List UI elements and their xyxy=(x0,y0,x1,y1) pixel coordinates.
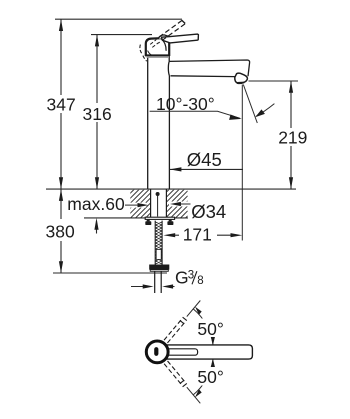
aerator outlet face xyxy=(237,82,244,84)
arrow 316 top xyxy=(95,35,99,47)
lever swing dashed arc left of head xyxy=(140,45,142,54)
arrow 347 top xyxy=(59,19,63,31)
svg-text:50°: 50° xyxy=(197,319,223,339)
water stream line vertical (10deg) / 171 extension xyxy=(241,85,243,241)
mounting bolt left xyxy=(147,220,150,222)
arrowhead upper arc at bar xyxy=(211,337,215,345)
shank centerline and dot xyxy=(156,192,160,196)
label 50 lower (with white mask) xyxy=(197,367,229,386)
label 50 upper (with white mask) xyxy=(197,319,229,338)
dia34 arrow with halo xyxy=(169,202,190,207)
lever raised end cap xyxy=(182,20,186,23)
dashed handle rotated up 50deg xyxy=(164,317,187,343)
svg-text:316: 316 xyxy=(83,104,112,124)
handle slot top view xyxy=(154,347,158,356)
lever swing dashed arc lower left xyxy=(143,56,147,62)
counter hatching left of hole xyxy=(100,189,215,219)
extension line lower 50deg xyxy=(187,387,201,403)
svg-text:10°-30°: 10°-30° xyxy=(156,94,215,114)
arrow 171 left xyxy=(163,233,175,237)
hose braid texture xyxy=(155,222,162,264)
arrowhead lower arc at bar xyxy=(211,359,215,367)
dashed handle rotated down 50deg xyxy=(164,360,187,387)
neck right edge below head xyxy=(168,54,170,61)
arrow 171 right xyxy=(231,233,243,237)
arrowhead lower arc at extension xyxy=(195,389,202,397)
extension line upper 50deg xyxy=(187,301,201,317)
head interior bottom-left arc xyxy=(148,51,152,56)
lever handle raised lower edge xyxy=(158,24,185,43)
aerator (mousseur) xyxy=(235,73,248,83)
countertop top surface line xyxy=(46,188,296,190)
arrow 219 top xyxy=(289,81,293,93)
dimension 380 line xyxy=(60,189,62,219)
svg-text:219: 219 xyxy=(278,128,307,148)
svg-text:347: 347 xyxy=(47,94,76,114)
max.60 leader with halo xyxy=(125,203,146,208)
dimension 316 line xyxy=(96,35,98,103)
svg-text:max.60: max.60 xyxy=(67,194,125,214)
arrow 347 bottom xyxy=(59,177,63,189)
head interior hidden lever lines xyxy=(150,40,158,48)
swing arc 10-30 with arrowhead xyxy=(256,104,274,116)
svg-text:Ø34: Ø34 xyxy=(191,201,226,222)
svg-text:380: 380 xyxy=(46,221,75,241)
cartridge head housing xyxy=(146,38,169,56)
hose label window xyxy=(156,249,161,259)
extension line hose end (380 ref) xyxy=(53,272,167,274)
neck curve right side xyxy=(168,61,169,75)
G3/8 connector tube xyxy=(155,271,162,293)
dia45 leader xyxy=(170,168,243,170)
arrow 380 bottom xyxy=(59,261,63,273)
svg-text:50°: 50° xyxy=(197,367,223,387)
mounting bolt right xyxy=(169,220,172,222)
water stream line 30deg xyxy=(243,85,257,124)
spout bar top view xyxy=(160,345,252,359)
max.60 leader arrow xyxy=(138,203,149,207)
hose end nut xyxy=(149,265,169,270)
svg-text:G: G xyxy=(175,268,189,288)
dimension 171 line xyxy=(168,234,179,236)
top view swing arc lower xyxy=(193,359,213,395)
extension line top (347 ref, lever tip) xyxy=(55,18,182,20)
max.60 lower arrow xyxy=(96,221,98,234)
mounting plate under counter xyxy=(145,217,174,219)
extension line 316 ref xyxy=(91,34,152,36)
dimension 219 line xyxy=(290,81,292,128)
leader line 10-30 label xyxy=(150,111,240,118)
arrow 380 top xyxy=(59,189,63,201)
base circle top view xyxy=(146,341,168,363)
countertop bottom surface line xyxy=(84,217,188,219)
lever handle hinge boss xyxy=(158,35,170,39)
flexible braided hose xyxy=(155,221,162,265)
lever top view neutral xyxy=(163,349,198,355)
arrow 316 bottom xyxy=(95,177,99,189)
lever handle raised (dashed position) upper edge xyxy=(156,20,182,39)
lever handle (closed position) xyxy=(162,34,199,43)
arrowhead upper arc at extension xyxy=(195,307,202,315)
threaded shank through counter xyxy=(151,189,167,218)
top view swing arc upper xyxy=(193,309,213,345)
spout arm xyxy=(169,60,249,77)
dimension 347 line xyxy=(60,19,62,95)
extension line aerator outlet (219 ref) xyxy=(249,80,299,82)
head base shadow xyxy=(145,54,170,56)
svg-text:171: 171 xyxy=(183,225,212,245)
arrow 219 bottom xyxy=(289,177,293,189)
G3/8 arrows xyxy=(131,286,144,288)
head interior ball arc xyxy=(161,38,166,50)
faucet body column xyxy=(148,54,170,189)
svg-text:8: 8 xyxy=(197,275,203,287)
svg-text:Ø45: Ø45 xyxy=(187,149,222,170)
